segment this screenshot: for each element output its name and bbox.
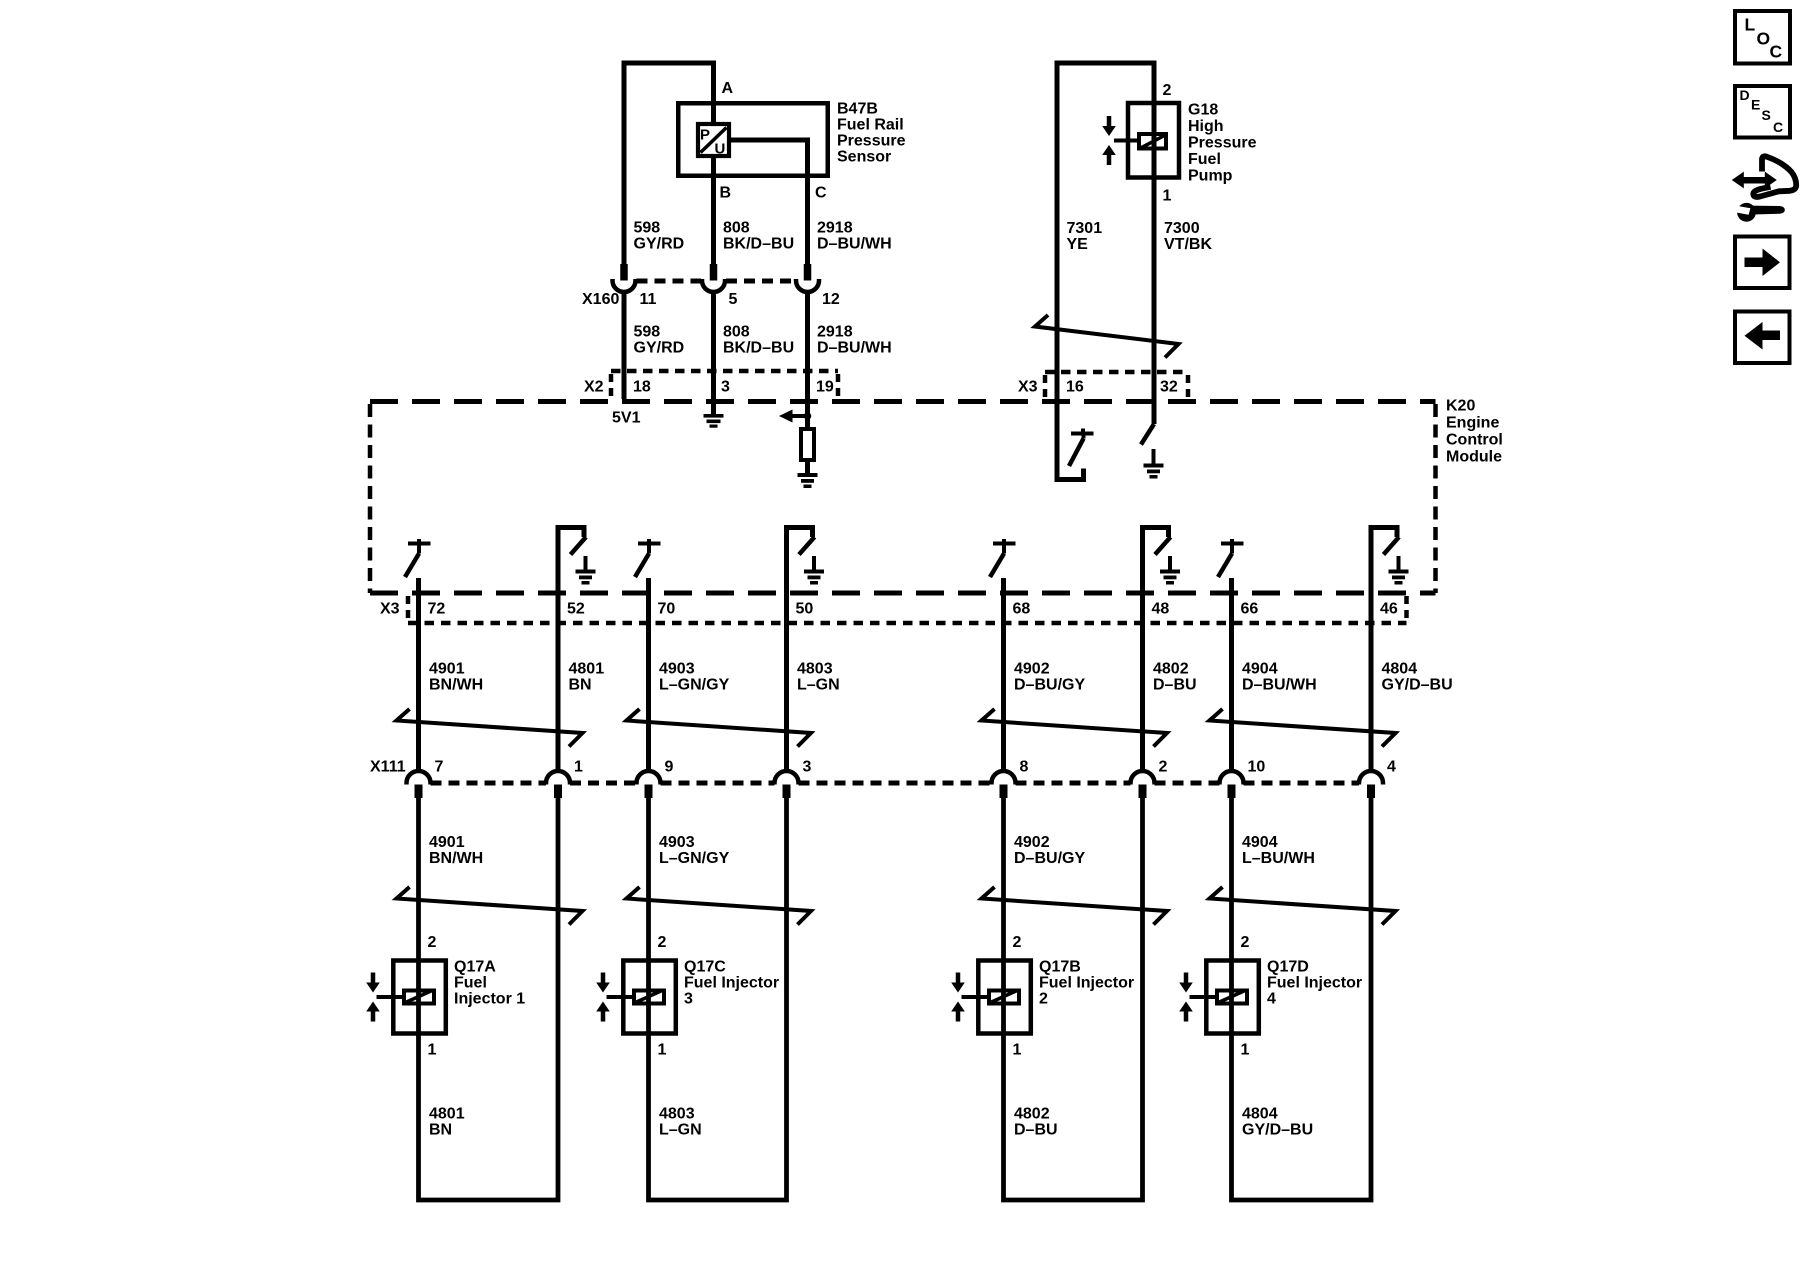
X111 pin number 1 <box>574 759 583 776</box>
svg-text:4804: 4804 <box>1242 1106 1278 1123</box>
wire resistor to ground <box>805 462 810 473</box>
svg-text:G18: G18 <box>1188 102 1218 119</box>
svg-text:4: 4 <box>1267 991 1276 1008</box>
svg-text:1: 1 <box>1241 1042 1250 1059</box>
svg-text:11: 11 <box>640 291 657 308</box>
svg-text:Pressure: Pressure <box>1188 135 1257 152</box>
svg-text:1: 1 <box>574 759 583 776</box>
svg-text:O: O <box>1757 29 1771 49</box>
X111 wire tip pin 4 <box>1367 785 1375 799</box>
svg-text:BK/D–BU: BK/D–BU <box>723 340 794 357</box>
wire 7301 YE pump feed loop <box>1057 63 1154 325</box>
G18 pin 1 label <box>1163 188 1172 205</box>
driver symbol (ECM pin 68) <box>990 539 1016 577</box>
svg-text:4904: 4904 <box>1242 661 1278 678</box>
X160 wire tip pin 5 <box>710 264 718 281</box>
X160 pin number 12 <box>822 291 840 308</box>
fuel injector Q17D box <box>1206 961 1259 1034</box>
injector solenoid coil (Q17C) <box>634 991 664 1004</box>
svg-text:5: 5 <box>729 291 738 308</box>
X3 upper dotted outline <box>1045 372 1188 399</box>
svg-text:D–BU: D–BU <box>1014 1122 1058 1139</box>
svg-text:D–BU/WH: D–BU/WH <box>817 340 892 357</box>
driver switch symbol (pin 16) <box>1069 429 1094 467</box>
pump solenoid coil <box>1139 134 1166 149</box>
P/U transducer box <box>698 124 729 158</box>
icon DESC box <box>1735 86 1790 138</box>
svg-text:BN: BN <box>569 677 592 694</box>
X160 cup pin 12 <box>796 279 819 292</box>
svg-text:L–GN: L–GN <box>659 1122 702 1139</box>
svg-text:4902: 4902 <box>1014 834 1050 851</box>
X111 wire tip pin 8 <box>1000 785 1008 799</box>
wire pair loop through injector Q17B <box>1004 797 1143 1200</box>
fuel injector Q17B box <box>978 961 1031 1034</box>
injector pin 1 label (Q17A) <box>428 1042 437 1059</box>
svg-text:2: 2 <box>658 934 667 951</box>
wire label 2918 D-BU/WH (lower) <box>817 324 892 357</box>
svg-text:2918: 2918 <box>817 220 853 237</box>
svg-text:GY/D–BU: GY/D–BU <box>1382 677 1453 694</box>
twisted pair marker (pair 4, upper) <box>1210 709 1396 747</box>
pin C label <box>815 185 827 202</box>
X111 wire tip pin 2 <box>1139 785 1147 799</box>
svg-text:4802: 4802 <box>1014 1106 1050 1123</box>
svg-text:4804: 4804 <box>1382 661 1418 678</box>
svg-text:C: C <box>1773 119 1783 135</box>
injector coil stub (Q17A) <box>377 995 405 999</box>
svg-text:Fuel: Fuel <box>1188 151 1221 168</box>
svg-text:48: 48 <box>1152 601 1170 618</box>
svg-text:Engine: Engine <box>1446 415 1499 432</box>
svg-text:2: 2 <box>1159 759 1168 776</box>
wire 7300 internal stub (pin 32) <box>1152 399 1157 424</box>
wire label 2918 D-BU/WH <box>817 220 892 253</box>
svg-text:9: 9 <box>665 759 674 776</box>
svg-text:BN: BN <box>429 1122 452 1139</box>
svg-text:L–GN/GY: L–GN/GY <box>659 850 730 867</box>
ground (pin 48 driver) <box>1160 556 1180 585</box>
svg-text:52: 52 <box>567 601 585 618</box>
wire label 4803 L–GN <box>797 661 840 694</box>
svg-text:D–BU: D–BU <box>1153 677 1197 694</box>
svg-text:Control: Control <box>1446 432 1503 449</box>
wire label 808 BK/D-BU (lower) <box>723 324 794 357</box>
injector coil stub (Q17B) <box>962 995 990 999</box>
X111 pin number 8 <box>1020 759 1029 776</box>
pump box G18 <box>1128 103 1179 178</box>
svg-text:4901: 4901 <box>429 834 465 851</box>
X3 pin number 50 <box>796 601 814 618</box>
wire label 4804 GY/D–BU (injector return) <box>1242 1106 1313 1139</box>
X111 pin number 7 <box>435 759 444 776</box>
X160 wire tip pin 12 <box>804 264 812 281</box>
X3 pin number 16 <box>1066 379 1084 396</box>
wire 598 GY/RD segment to X2-18 <box>622 292 627 400</box>
X111 pin number 10 <box>1248 759 1266 776</box>
svg-text:Fuel Injector: Fuel Injector <box>1039 975 1134 992</box>
wire label 4901 BN/WH (below X111) <box>429 834 483 867</box>
svg-text:808: 808 <box>723 324 750 341</box>
ground-side loop (ECM pin 52) <box>558 528 584 772</box>
fuel injector Q17A box <box>393 961 446 1034</box>
svg-text:L–BU/WH: L–BU/WH <box>1242 850 1315 867</box>
X111 wire tip pin 9 <box>645 785 653 799</box>
component label Q17B <box>1039 959 1134 1008</box>
svg-text:4801: 4801 <box>429 1106 465 1123</box>
svg-text:4901: 4901 <box>429 661 465 678</box>
driver symbol (ECM pin 70) <box>635 539 661 577</box>
svg-text:Q17D: Q17D <box>1267 959 1309 976</box>
svg-text:70: 70 <box>658 601 676 618</box>
wire ECM pin 68 to X111 <box>1001 578 1006 771</box>
ground (pin 52 driver) <box>576 556 596 585</box>
ground-side loop (ECM pin 50) <box>787 528 813 772</box>
svg-text:D: D <box>1740 87 1750 103</box>
component label Q17A <box>454 959 525 1008</box>
injector coil stub (Q17C) <box>607 995 635 999</box>
pump valve arrows <box>1102 116 1116 165</box>
svg-text:Fuel: Fuel <box>454 975 487 992</box>
wire ECM pin 66 to X111 <box>1229 578 1234 771</box>
ECM dashed box right border <box>1433 404 1438 593</box>
svg-text:X2: X2 <box>584 379 604 396</box>
wire label 598 GY/RD <box>634 220 685 253</box>
component label B47B Fuel Rail Pressure Sensor <box>837 101 906 166</box>
injector pin 1 label (Q17C) <box>658 1042 667 1059</box>
svg-text:L: L <box>1745 15 1756 35</box>
switch blade (pin 50) <box>799 537 815 555</box>
svg-text:Q17A: Q17A <box>454 959 496 976</box>
svg-text:72: 72 <box>428 601 446 618</box>
svg-text:VT/BK: VT/BK <box>1164 236 1212 253</box>
ground (below resistor) <box>798 473 818 488</box>
svg-text:BN/WH: BN/WH <box>429 677 483 694</box>
X111 pin number 9 <box>665 759 674 776</box>
X3 pin number 70 <box>658 601 676 618</box>
svg-text:598: 598 <box>634 324 661 341</box>
wire pair loop through injector Q17C <box>649 797 787 1200</box>
X3 pin number 72 <box>428 601 446 618</box>
svg-text:A: A <box>722 80 734 97</box>
svg-text:U: U <box>715 141 726 158</box>
svg-text:Sensor: Sensor <box>837 149 891 166</box>
wire ECM pin 72 to X111 <box>416 578 421 771</box>
svg-text:GY/RD: GY/RD <box>634 340 685 357</box>
svg-text:4903: 4903 <box>659 661 695 678</box>
svg-text:2918: 2918 <box>817 324 853 341</box>
svg-text:K20: K20 <box>1446 398 1475 415</box>
injector valve arrows (Q17C) <box>596 973 610 1022</box>
svg-text:BK/D–BU: BK/D–BU <box>723 236 794 253</box>
svg-text:S: S <box>1762 107 1771 123</box>
wire label 7300 VT/BK <box>1164 220 1212 253</box>
injector solenoid coil (Q17D) <box>1217 991 1247 1004</box>
wire label 4904 D–BU/WH <box>1242 661 1317 694</box>
svg-text:1: 1 <box>1163 188 1172 205</box>
injector valve arrows (Q17D) <box>1179 973 1193 1022</box>
component label Q17D <box>1267 959 1362 1008</box>
svg-text:Pressure: Pressure <box>837 133 906 150</box>
connector X3 (lower) label <box>380 601 400 618</box>
wire ECM pin 70 to X111 <box>646 578 651 771</box>
switch blade (pin 32) <box>1141 424 1154 445</box>
svg-text:Q17C: Q17C <box>684 959 726 976</box>
X111 pin number 4 <box>1387 759 1396 776</box>
svg-text:L–GN/GY: L–GN/GY <box>659 677 730 694</box>
internal arrow (signal to ECM) <box>779 410 811 423</box>
node 5V1 label <box>612 410 641 427</box>
pin A label <box>722 80 734 97</box>
ground (pin 32 driver) <box>1144 449 1164 479</box>
svg-text:4903: 4903 <box>659 834 695 851</box>
twisted pair marker (pair 1, upper) <box>397 709 583 747</box>
X3 pin number 46 <box>1380 601 1398 618</box>
switch blade (pin 46) <box>1384 537 1400 555</box>
X111 cup pin 10 <box>1220 771 1244 785</box>
svg-text:B: B <box>720 185 732 202</box>
svg-text:18: 18 <box>633 379 651 396</box>
wire 808 (sensor pin B, signal low) <box>711 156 716 265</box>
wire label 4802 D–BU <box>1153 661 1197 694</box>
resistor (internal pull-up) <box>801 429 814 460</box>
svg-text:GY/RD: GY/RD <box>634 236 685 253</box>
X3 lower dotted outline <box>408 596 1407 623</box>
wire label 4903 L–GN/GY (below X111) <box>659 834 730 867</box>
svg-text:19: 19 <box>816 379 834 396</box>
pump coil stub <box>1114 139 1139 143</box>
svg-text:B47B: B47B <box>837 101 878 118</box>
X3 pin number 32 <box>1160 379 1178 396</box>
X3 pin number 66 <box>1241 601 1259 618</box>
ECM dashed box top border <box>370 399 1436 404</box>
svg-text:X3: X3 <box>1018 379 1038 396</box>
wire label 7301 YE <box>1067 220 1103 253</box>
wire label 4801 BN (injector return) <box>429 1106 465 1139</box>
twisted pair marker (pair 4, lower) <box>1210 887 1396 925</box>
connector X160 label <box>582 291 619 308</box>
wire label 4902 D–BU/GY <box>1014 661 1085 694</box>
X111 cup pin 4 <box>1359 771 1383 785</box>
svg-text:D–BU/GY: D–BU/GY <box>1014 850 1085 867</box>
svg-text:X160: X160 <box>582 291 619 308</box>
X3 pin number 52 <box>567 601 585 618</box>
X111 cup pin 8 <box>992 771 1016 785</box>
svg-text:D–BU/WH: D–BU/WH <box>817 236 892 253</box>
X111 pin number 3 <box>803 759 812 776</box>
wire label 4801 BN <box>569 661 605 694</box>
svg-text:10: 10 <box>1248 759 1266 776</box>
injector pin 2 label (Q17B) <box>1013 934 1022 951</box>
G18 pin 2 label <box>1163 82 1172 99</box>
injector pin 2 label (Q17C) <box>658 934 667 951</box>
svg-text:4803: 4803 <box>797 661 833 678</box>
svg-text:2: 2 <box>1163 82 1172 99</box>
twisted pair marker (pair 2, upper) <box>627 709 812 747</box>
svg-text:2: 2 <box>1039 991 1048 1008</box>
twisted pair marker (pump wires) <box>1035 315 1179 358</box>
svg-text:X111: X111 <box>370 759 406 776</box>
injector pin 1 label (Q17D) <box>1241 1042 1250 1059</box>
X160 dashed link <box>637 279 796 284</box>
injector pin 2 label (Q17D) <box>1241 934 1250 951</box>
X2 dotted outline <box>611 371 838 399</box>
component label K20 Engine Control Module <box>1446 398 1503 466</box>
svg-text:4801: 4801 <box>569 661 605 678</box>
fuel injector Q17C box <box>623 961 676 1034</box>
twisted pair marker (pair 3, upper) <box>982 709 1168 747</box>
svg-text:3: 3 <box>803 759 812 776</box>
X111 cup pin 9 <box>637 771 661 785</box>
svg-text:5V1: 5V1 <box>612 410 641 427</box>
svg-text:Module: Module <box>1446 449 1502 466</box>
svg-text:E: E <box>1751 97 1760 113</box>
component label Q17C <box>684 959 779 1008</box>
injector pin 2 label (Q17A) <box>428 934 437 951</box>
svg-text:Fuel Rail: Fuel Rail <box>837 117 904 134</box>
switch blade (pin 48) <box>1155 537 1171 555</box>
svg-text:4803: 4803 <box>659 1106 695 1123</box>
svg-text:D–BU/WH: D–BU/WH <box>1242 677 1317 694</box>
wire 7301 YE segment into ECM <box>1055 325 1060 399</box>
wire 808 BK/D-BU segment to X2-3 <box>711 292 716 400</box>
svg-text:Fuel Injector: Fuel Injector <box>684 975 779 992</box>
svg-text:598: 598 <box>634 220 661 237</box>
icon double arrow with wrench <box>1732 156 1796 221</box>
svg-text:D–BU/GY: D–BU/GY <box>1014 677 1085 694</box>
svg-text:7300: 7300 <box>1164 220 1200 237</box>
X2 pin number 3 <box>721 379 730 396</box>
wire label 4902 D–BU/GY (below X111) <box>1014 834 1085 867</box>
svg-text:BN/WH: BN/WH <box>429 850 483 867</box>
X2 pin number 19 <box>816 379 834 396</box>
ECM dashed box bottom border <box>370 591 1436 596</box>
svg-text:L–GN: L–GN <box>797 677 840 694</box>
sensor outer box B47B <box>678 103 828 176</box>
svg-text:2: 2 <box>428 934 437 951</box>
wire label 4803 L–GN (injector return) <box>659 1106 702 1139</box>
icon next-page arrow box <box>1735 237 1790 289</box>
wire label 4804 GY/D–BU <box>1382 661 1453 694</box>
svg-text:3: 3 <box>684 991 693 1008</box>
svg-text:Q17B: Q17B <box>1039 959 1081 976</box>
ground-side loop (ECM pin 46) <box>1371 528 1397 772</box>
X111 wire tip pin 3 <box>783 785 791 799</box>
X111 wire tip pin 10 <box>1228 785 1236 799</box>
driver symbol (ECM pin 66) <box>1218 539 1244 577</box>
svg-text:12: 12 <box>822 291 840 308</box>
svg-text:3: 3 <box>721 379 730 396</box>
connector X3 (upper) label <box>1018 379 1038 396</box>
svg-text:Injector 1: Injector 1 <box>454 991 525 1008</box>
connector X2 label <box>584 379 604 396</box>
svg-text:7301: 7301 <box>1067 220 1103 237</box>
wire label 4901 BN/WH <box>429 661 483 694</box>
wire 2918 (sensor pin C, signal) <box>731 140 808 264</box>
wire 598 / sensor supply loop (net A) <box>624 63 714 264</box>
svg-text:Fuel Injector: Fuel Injector <box>1267 975 1362 992</box>
ground-side loop (ECM pin 48) <box>1143 528 1169 772</box>
injector valve arrows (Q17B) <box>951 973 965 1022</box>
wire pair loop through injector Q17A <box>419 797 559 1200</box>
X111 cup pin 2 <box>1131 771 1155 785</box>
svg-text:C: C <box>815 185 827 202</box>
X111 wire tip pin 1 <box>554 785 562 799</box>
X111 cup pin 3 <box>775 771 799 785</box>
svg-text:7: 7 <box>435 759 444 776</box>
svg-text:16: 16 <box>1066 379 1084 396</box>
X111 wire tip pin 7 <box>415 785 423 799</box>
X160 wire tip pin 11 <box>620 264 628 281</box>
svg-text:50: 50 <box>796 601 814 618</box>
svg-text:808: 808 <box>723 220 750 237</box>
X3 pin number 48 <box>1152 601 1170 618</box>
wire label 4802 D–BU (injector return) <box>1014 1106 1058 1139</box>
svg-text:High: High <box>1188 118 1224 135</box>
svg-text:Pump: Pump <box>1188 168 1233 185</box>
wire label 4903 L–GN/GY <box>659 661 730 694</box>
svg-text:1: 1 <box>1013 1042 1022 1059</box>
ECM dashed box left border <box>368 404 373 593</box>
injector pin 1 label (Q17B) <box>1013 1042 1022 1059</box>
injector solenoid coil (Q17B) <box>989 991 1019 1004</box>
svg-text:8: 8 <box>1020 759 1029 776</box>
svg-text:GY/D–BU: GY/D–BU <box>1242 1122 1313 1139</box>
injector valve arrows (Q17A) <box>366 973 380 1022</box>
svg-text:2: 2 <box>1013 934 1022 951</box>
ground (ECM internal, pin 3) <box>704 414 724 428</box>
wire label 4904 L–BU/WH (below X111) <box>1242 834 1315 867</box>
svg-text:32: 32 <box>1160 379 1178 396</box>
twisted pair marker (pair 3, lower) <box>982 887 1168 925</box>
icon previous-page arrow box <box>1735 312 1790 364</box>
wire pair loop through injector Q17D <box>1232 797 1372 1200</box>
svg-text:X3: X3 <box>380 601 400 618</box>
injector solenoid coil (Q17A) <box>404 991 434 1004</box>
X2 pin number 18 <box>633 379 651 396</box>
X160 pin number 5 <box>729 291 738 308</box>
svg-text:1: 1 <box>658 1042 667 1059</box>
svg-text:4: 4 <box>1387 759 1396 776</box>
pin B label <box>720 185 732 202</box>
wire 2918 D-BU/WH segment to X2-19 <box>805 292 810 400</box>
X111 pin number 2 <box>1159 759 1168 776</box>
svg-text:YE: YE <box>1067 236 1089 253</box>
connector X111 label <box>370 759 406 776</box>
X3 pin number 68 <box>1013 601 1031 618</box>
twisted pair marker (pair 2, lower) <box>627 887 812 925</box>
svg-text:4902: 4902 <box>1014 661 1050 678</box>
svg-text:68: 68 <box>1013 601 1031 618</box>
svg-text:C: C <box>1770 42 1783 62</box>
svg-text:66: 66 <box>1241 601 1259 618</box>
svg-text:4904: 4904 <box>1242 834 1278 851</box>
X160 cup pin 5 <box>702 279 725 292</box>
svg-text:2: 2 <box>1241 934 1250 951</box>
ground (pin 50 driver) <box>804 556 824 585</box>
X160 cup pin 11 <box>613 279 636 292</box>
wire 7300 VT/BK through pump <box>1152 101 1157 424</box>
svg-text:P: P <box>700 127 710 144</box>
svg-text:1: 1 <box>428 1042 437 1059</box>
wire label 598 GY/RD (lower) <box>634 324 685 357</box>
svg-text:4802: 4802 <box>1153 661 1189 678</box>
twisted pair marker (pair 1, lower) <box>397 887 583 925</box>
icon LOC box <box>1735 11 1790 64</box>
injector coil stub (Q17D) <box>1190 995 1218 999</box>
svg-text:46: 46 <box>1380 601 1398 618</box>
switch blade (pin 52) <box>571 537 587 555</box>
